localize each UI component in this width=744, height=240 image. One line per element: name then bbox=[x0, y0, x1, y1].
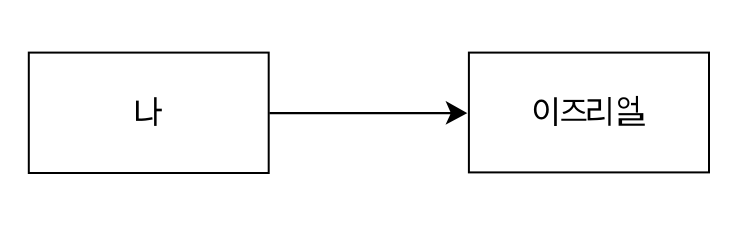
node box: 나 bbox=[29, 53, 269, 173]
glyph 리 bbox=[588, 97, 611, 126]
label text 이즈리얼 - glyph 이 bbox=[534, 97, 557, 126]
glyph 얼 bbox=[618, 96, 645, 126]
glyph 즈 bbox=[561, 100, 586, 121]
wire: arrow shaft bbox=[270, 112, 452, 114]
arrowhead bbox=[446, 101, 468, 125]
label text 나 bbox=[136, 97, 162, 126]
node box: 이즈리얼 bbox=[469, 53, 709, 173]
